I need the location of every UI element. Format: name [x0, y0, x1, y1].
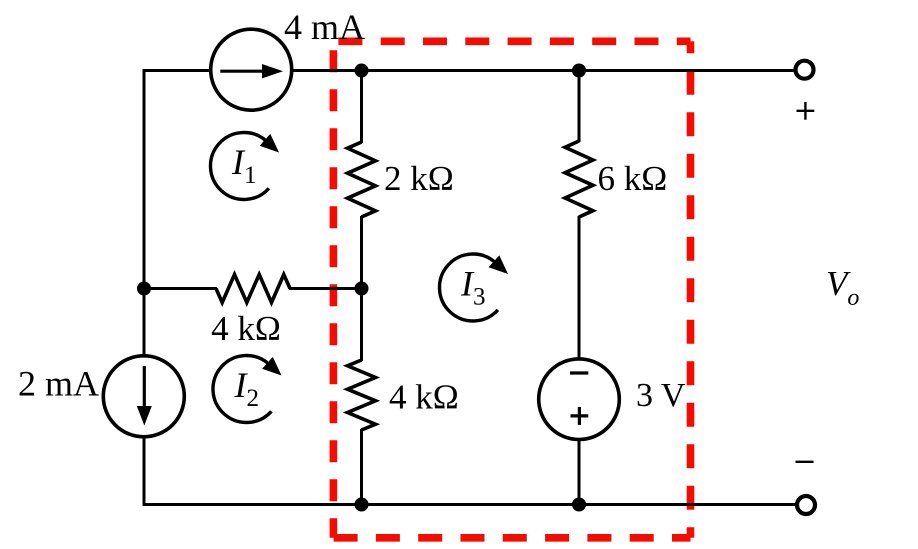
- node B (top of 6k): [572, 64, 586, 78]
- current source 2 mA: [103, 356, 184, 437]
- wire node A down to 2k resistor: [360, 71, 363, 144]
- node A (top of 2k): [355, 64, 369, 78]
- svg-text:2 kΩ: 2 kΩ: [384, 159, 454, 198]
- wire left vertical lower: [143, 437, 146, 506]
- svg-text:I3: I3: [460, 264, 486, 311]
- svg-text:3 V: 3 V: [636, 377, 686, 414]
- wire 4k vertical resistor to bottom node: [360, 429, 363, 505]
- wire 2k resistor to node C: [360, 216, 363, 361]
- red dashed supernode boundary bottom edge: [333, 534, 690, 542]
- terminal + output: [796, 61, 814, 79]
- red dashed supernode boundary right edge: [687, 41, 695, 538]
- wire left vertical upper: [143, 69, 146, 356]
- node bottom of 4k: [355, 498, 369, 512]
- svg-text:2 mA: 2 mA: [18, 364, 99, 404]
- current source 4 mA: [211, 29, 292, 110]
- red dashed supernode boundary top edge: [333, 37, 690, 45]
- svg-text:Vo: Vo: [826, 264, 859, 311]
- mesh current I1: [210, 133, 268, 200]
- svg-text:I1: I1: [231, 142, 257, 189]
- terminal - output: [797, 496, 815, 514]
- wire top right of 4mA source to node A, node B and + terminal: [292, 69, 795, 72]
- resistor 6 kOhm: [565, 141, 593, 217]
- svg-text:4 mA: 4 mA: [284, 7, 365, 47]
- node bottom of 3V: [572, 498, 586, 512]
- mesh current I2: [213, 356, 271, 423]
- wire 3V source to bottom node: [578, 439, 581, 505]
- wire 6k resistor to 3V source: [578, 216, 581, 360]
- svg-text:6 kΩ: 6 kΩ: [598, 159, 668, 198]
- plus sign output: [797, 110, 815, 112]
- wire node B down to 6k resistor: [578, 71, 581, 143]
- voltage source 3 V: [539, 359, 620, 440]
- svg-text:4 kΩ: 4 kΩ: [211, 309, 281, 348]
- mesh current I3: [439, 254, 497, 321]
- wire bottom: [143, 503, 796, 506]
- red dashed supernode boundary left edge: [330, 41, 338, 538]
- resistor 4 kOhm horizontal: [216, 275, 290, 303]
- resistor 2 kOhm: [348, 142, 376, 217]
- wire middle horizontal left of 4k resistor: [144, 287, 217, 290]
- minus sign output: [796, 461, 814, 463]
- wire middle horizontal right of 4k resistor: [289, 287, 362, 290]
- wire top left: [144, 69, 211, 72]
- node C middle: [355, 282, 369, 296]
- svg-text:4 kΩ: 4 kΩ: [389, 378, 459, 417]
- node left middle: [137, 282, 151, 296]
- svg-text:I2: I2: [234, 365, 260, 412]
- resistor 4 kOhm vertical: [348, 360, 376, 430]
